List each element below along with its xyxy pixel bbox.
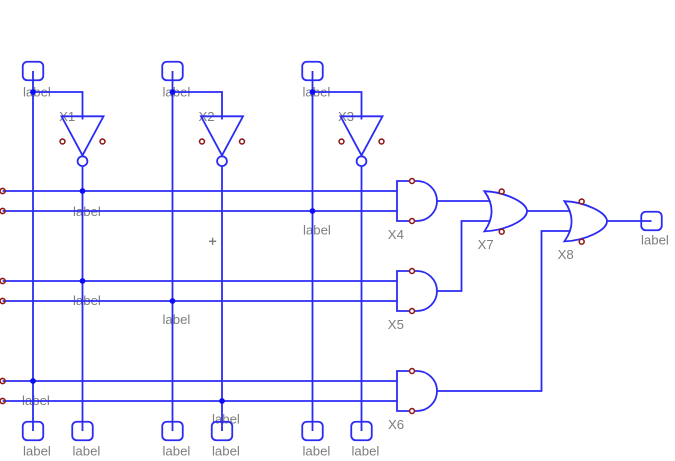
wire: X6 output riser to X8 input 2: [437, 231, 570, 391]
AND gate X4 body: [397, 181, 437, 221]
terminal B3 (bottom): [162, 422, 183, 441]
svg-text:label: label: [212, 411, 240, 426]
wire: net C vertical column: [312, 71, 314, 431]
junction dot at C branch: [310, 89, 316, 95]
open pin marker X8 top: [579, 199, 584, 204]
svg-text:X5: X5: [388, 317, 404, 332]
open pin marker X7 top: [499, 189, 504, 194]
terminal B1 (bottom): [23, 422, 44, 441]
open pin marker X1 right: [100, 139, 105, 144]
annotation: plus sign: [209, 238, 216, 245]
wire: bus row 5 to X6 input A: [3, 380, 397, 382]
AND gate X6 body: [397, 371, 437, 411]
svg-text:label: label: [352, 443, 380, 458]
open pin marker X1 left: [60, 139, 65, 144]
wire: X3 output column (not C): [361, 166, 363, 431]
wire: bus row 1 to X4 input A: [3, 190, 397, 192]
junction dot at A branch: [30, 89, 36, 95]
open pin marker row 1 left: [0, 188, 5, 193]
inverter X2 body: [201, 116, 243, 155]
inverter X1 bubble: [78, 156, 88, 166]
terminal B5 (bottom): [302, 422, 323, 441]
open pin marker X5 bottom: [410, 309, 415, 314]
open pin marker X4 top: [410, 179, 415, 184]
inverter X1 body: [62, 116, 104, 155]
svg-text:X4: X4: [388, 227, 404, 242]
wire: X5 output riser to X7 input 2: [437, 221, 490, 291]
open pin marker X8 bottom: [579, 239, 584, 244]
junction dot notB on row 6: [219, 398, 225, 404]
open pin marker row 3 left: [0, 278, 5, 283]
AND gate X5 body: [397, 271, 437, 311]
open pin marker X4 bottom: [410, 219, 415, 224]
junction dot B on row 4: [170, 298, 176, 304]
OR gate X8 body: [564, 201, 607, 241]
open pin marker X2 left: [200, 139, 205, 144]
wire: X2 output column (not B): [221, 166, 223, 431]
inverter X3 bubble: [357, 156, 367, 166]
wire: bus row 3 to X5 input A: [3, 280, 397, 282]
junction dot notA on row 1: [80, 188, 86, 194]
inverter X2 bubble: [217, 156, 227, 166]
wire: X7 output to X8 input 1: [527, 210, 570, 212]
open pin marker row 6 left: [0, 398, 5, 403]
svg-text:X8: X8: [558, 247, 574, 262]
wire: bus row 2 to X4 input B: [3, 210, 397, 212]
svg-text:label: label: [73, 443, 101, 458]
wire: net B vertical column: [172, 71, 174, 431]
svg-text:label: label: [23, 443, 51, 458]
junction dot C on row 2: [310, 208, 316, 214]
terminal B2 (bottom): [72, 422, 93, 441]
open pin marker row 4 left: [0, 298, 5, 303]
terminal B4 (bottom): [212, 422, 233, 441]
open pin marker X7 bottom: [499, 229, 504, 234]
wire: X4 output to X7 input 1: [437, 200, 490, 202]
svg-text:label: label: [163, 443, 191, 458]
inverter X3 body: [341, 116, 383, 155]
svg-text:X6: X6: [388, 417, 404, 432]
terminal B6 (bottom): [351, 422, 372, 441]
wire: net A vertical column: [32, 71, 34, 431]
svg-text:label: label: [303, 222, 331, 237]
open pin marker X3 right: [379, 139, 384, 144]
svg-text:label: label: [163, 312, 191, 327]
svg-text:label: label: [303, 443, 331, 458]
open pin marker X2 right: [240, 139, 245, 144]
svg-text:X7: X7: [478, 237, 494, 252]
wire: branch A to X1 input: [33, 92, 83, 120]
open pin marker X6 bottom: [410, 409, 415, 414]
open pin marker row 5 left: [0, 378, 5, 383]
open pin marker X6 top: [410, 369, 415, 374]
terminal OUT (right output): [641, 212, 662, 231]
wire: branch C to X3 input: [313, 92, 362, 120]
junction dot at B branch: [170, 89, 176, 95]
wire: bus row 4 to X5 input B: [3, 300, 397, 302]
open pin marker X5 top: [410, 269, 415, 274]
open pin marker X3 left: [339, 139, 344, 144]
wire: X8 output to output terminal: [607, 220, 652, 222]
terminal TB (top input B): [162, 62, 183, 81]
OR gate X7 body: [484, 191, 527, 231]
wire: branch B to X2 input: [173, 92, 223, 120]
svg-text:label: label: [212, 443, 240, 458]
terminal TC (top input C): [302, 62, 323, 81]
svg-text:label: label: [641, 232, 669, 247]
wire: X1 output column (not A): [82, 166, 84, 431]
terminal TA (top input A): [23, 62, 44, 81]
wire: bus row 6 to X6 input B: [3, 400, 397, 402]
junction dot notA on row 3: [80, 278, 86, 284]
junction dot A on row 5: [30, 378, 36, 384]
open pin marker row 2 left: [0, 208, 5, 213]
